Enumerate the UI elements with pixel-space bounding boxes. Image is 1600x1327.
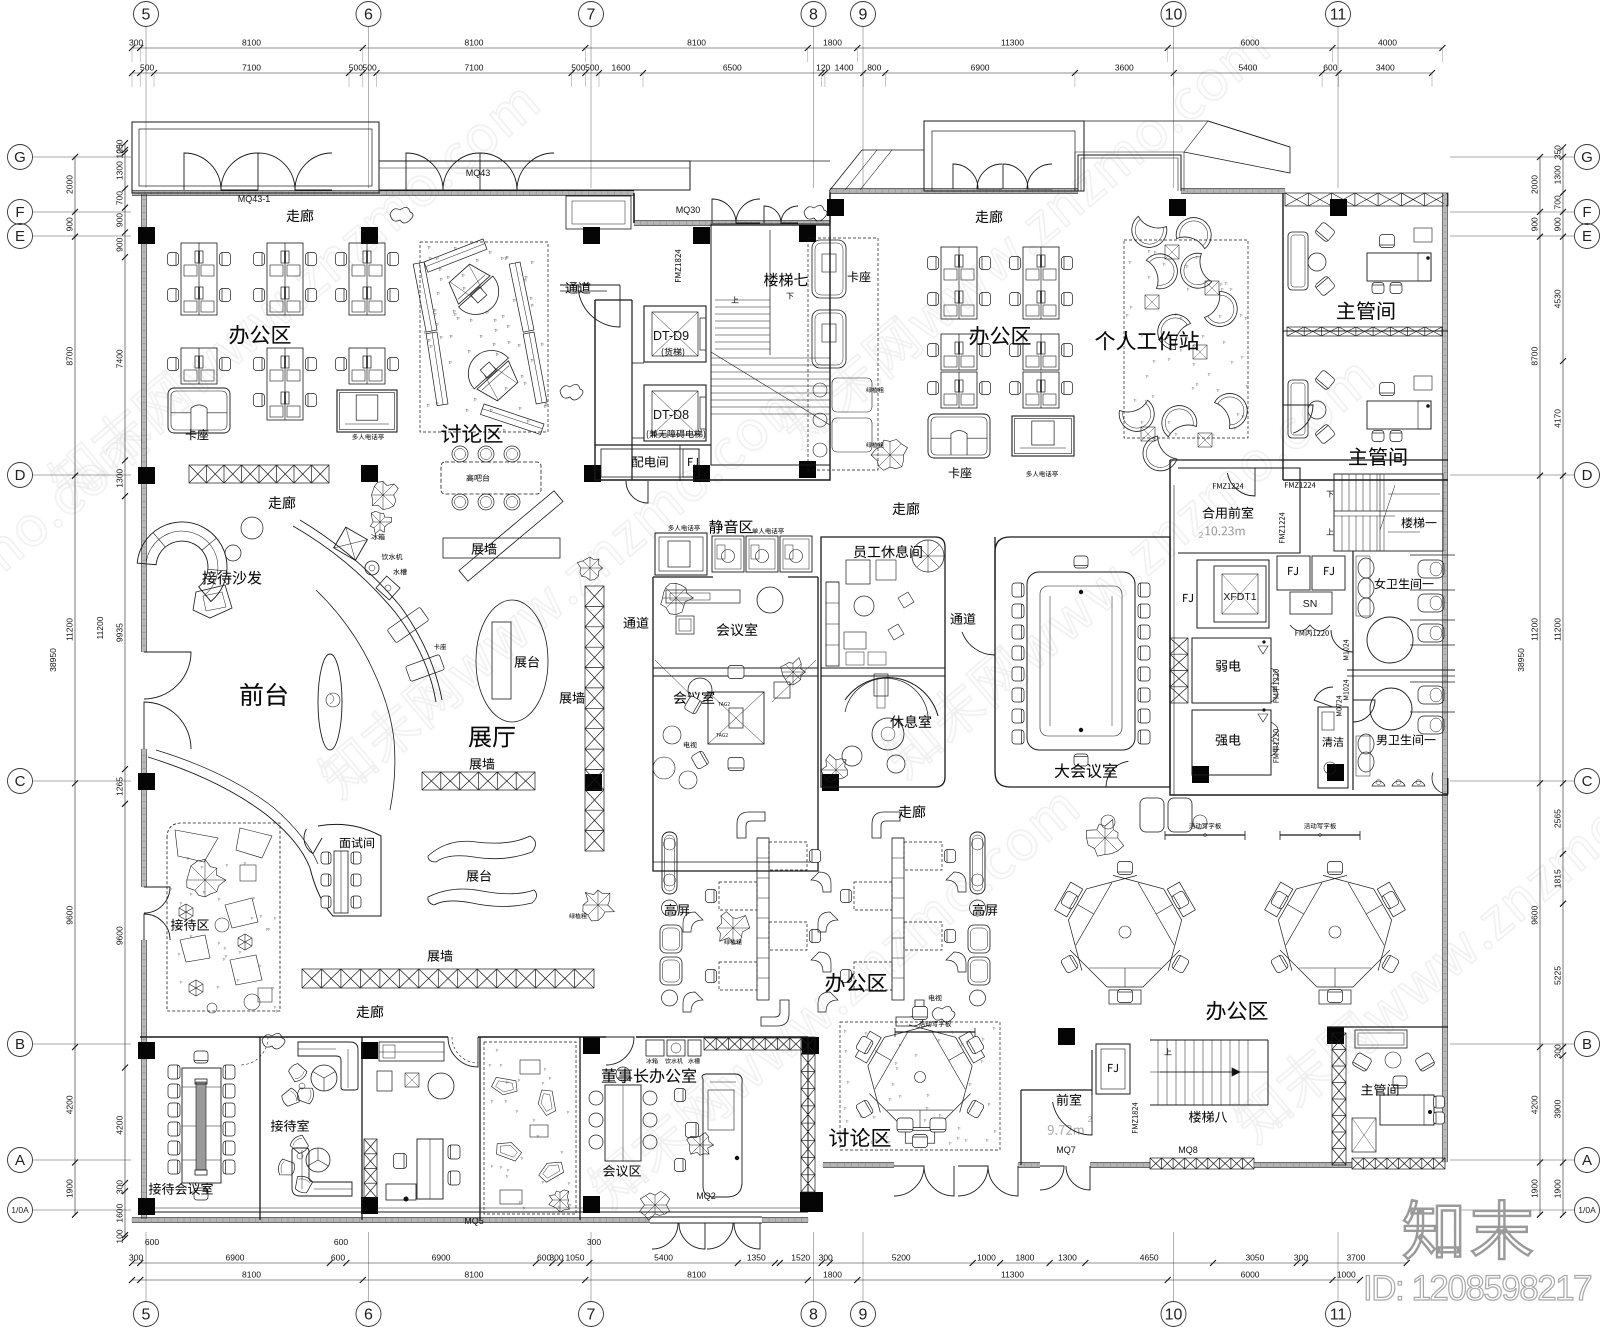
svg-text:300: 300 [819,1253,833,1263]
svg-text:9600: 9600 [1529,906,1539,925]
svg-text:1265: 1265 [115,777,125,796]
svg-text:1900: 1900 [65,1179,75,1198]
svg-text:7100: 7100 [242,63,261,73]
svg-text:6900: 6900 [226,1253,245,1263]
svg-text:5400: 5400 [1238,63,1257,73]
svg-text:10: 10 [1165,1307,1183,1324]
svg-text:SN: SN [1303,598,1318,610]
svg-text:1900: 1900 [1530,1179,1540,1198]
svg-text:F: F [15,204,24,221]
svg-text:8100: 8100 [465,38,484,48]
svg-text:350: 350 [1553,145,1563,159]
svg-text:1815: 1815 [1553,869,1563,888]
svg-text:6: 6 [364,1307,373,1324]
svg-text:11200: 11200 [95,616,105,639]
svg-text:9600: 9600 [114,926,124,945]
svg-text:1900: 1900 [1552,1179,1562,1198]
svg-text:600: 600 [334,1237,348,1247]
svg-text:5: 5 [142,1307,151,1324]
svg-text:MQ43-1: MQ43-1 [238,194,271,204]
svg-text:MQ8: MQ8 [1178,1145,1198,1155]
svg-text:9: 9 [859,7,868,24]
svg-text:4170: 4170 [1552,409,1562,428]
svg-text:6500: 6500 [723,63,742,73]
svg-text:8100: 8100 [465,1270,484,1280]
svg-text:3400: 3400 [1376,63,1395,73]
svg-text:DT-D8: DT-D8 [653,408,689,422]
svg-text:1800: 1800 [1015,1253,1034,1263]
svg-text:7400: 7400 [115,349,125,368]
svg-text:900: 900 [1552,217,1562,231]
svg-text:10: 10 [1165,7,1183,24]
svg-text:100: 100 [114,1229,124,1243]
svg-text:1000: 1000 [1337,1270,1356,1280]
svg-text:MQ30: MQ30 [676,205,701,215]
svg-text:1300: 1300 [114,161,124,180]
svg-text:1800: 1800 [823,1270,842,1280]
svg-text:3600: 3600 [1115,63,1134,73]
svg-text:5: 5 [142,7,151,24]
svg-text:3050: 3050 [1245,1253,1264,1263]
svg-text:11300: 11300 [1001,1270,1024,1280]
svg-text:7100: 7100 [465,63,484,73]
svg-text:11200: 11200 [64,618,74,641]
svg-text:MQ5: MQ5 [464,1216,484,1226]
svg-text:6900: 6900 [432,1253,451,1263]
svg-text:1/0A: 1/0A [1578,1205,1596,1215]
svg-text:B: B [15,1036,25,1053]
svg-text:8100: 8100 [687,38,706,48]
svg-text:700: 700 [1552,195,1562,209]
svg-text:DT-D9: DT-D9 [653,329,689,343]
svg-text:1300: 1300 [1058,1253,1077,1263]
svg-text:XFDT1: XFDT1 [1223,591,1256,603]
svg-text:B: B [1582,1036,1592,1053]
svg-text:700: 700 [115,191,125,205]
svg-text:ID: 1208598217: ID: 1208598217 [1363,1269,1591,1308]
svg-text:1520: 1520 [791,1253,810,1263]
svg-text:11200: 11200 [1552,618,1562,641]
svg-text:600: 600 [1323,63,1337,73]
svg-text:5400: 5400 [654,1253,673,1263]
svg-text:4530: 4530 [1553,289,1563,308]
svg-text:MQ7: MQ7 [1056,1145,1076,1155]
svg-text:11200: 11200 [1529,618,1539,641]
svg-text:E: E [15,228,25,245]
svg-text:3700: 3700 [1346,1253,1365,1263]
svg-text:8: 8 [809,1307,818,1324]
svg-text:6900: 6900 [971,63,990,73]
svg-text:38950: 38950 [48,648,58,672]
svg-text:2000: 2000 [65,175,75,194]
svg-text:38950: 38950 [1516,648,1526,672]
svg-text:11: 11 [1330,7,1347,24]
svg-text:9600: 9600 [64,906,74,925]
svg-text:8700: 8700 [1530,346,1540,365]
svg-text:2000: 2000 [1530,175,1540,194]
svg-text:3900: 3900 [1553,1099,1563,1118]
svg-text:MQ43: MQ43 [466,168,491,178]
svg-text:7: 7 [587,7,596,24]
svg-text:F: F [1582,204,1591,221]
svg-text:300: 300 [129,1253,143,1263]
svg-text:1300: 1300 [115,469,125,488]
svg-text:G: G [14,149,26,166]
svg-text:900: 900 [115,213,125,227]
svg-text:6: 6 [364,7,373,24]
svg-text:8100: 8100 [242,1270,261,1280]
svg-text:4200: 4200 [115,1116,125,1135]
svg-text:8: 8 [809,7,818,24]
svg-text:8100: 8100 [687,1270,706,1280]
svg-text:300: 300 [549,1253,563,1263]
svg-text:2565: 2565 [1552,809,1562,828]
svg-text:C: C [1582,773,1593,790]
svg-text:1000: 1000 [977,1253,996,1263]
svg-text:C: C [15,773,26,790]
svg-text:1400: 1400 [835,63,854,73]
svg-text:2: 2 [1199,531,1204,540]
svg-text:1350: 1350 [747,1253,766,1263]
svg-text:300: 300 [587,1237,601,1247]
svg-text:4200: 4200 [64,1095,74,1114]
svg-text:9935: 9935 [114,623,124,642]
svg-text:1800: 1800 [823,38,842,48]
svg-text:6000: 6000 [1241,1270,1260,1280]
svg-text:5225: 5225 [1553,966,1563,985]
svg-text:9: 9 [859,1307,868,1324]
svg-text:A: A [15,1152,25,1169]
svg-text:A: A [1582,1152,1592,1169]
svg-text:MQ2: MQ2 [696,1191,716,1201]
svg-text:4000: 4000 [1378,38,1397,48]
svg-text:800: 800 [867,63,881,73]
svg-text:900: 900 [115,237,125,251]
svg-text:8700: 8700 [65,346,75,365]
svg-text:G: G [1581,149,1593,166]
svg-text:600: 600 [145,1237,159,1247]
svg-text:900: 900 [64,217,74,231]
svg-text:4200: 4200 [1529,1095,1539,1114]
svg-text:5200: 5200 [892,1253,911,1263]
svg-text:900: 900 [1529,217,1539,231]
svg-text:1/0A: 1/0A [11,1205,29,1215]
svg-text:E: E [1582,228,1592,245]
svg-text:6000: 6000 [1241,38,1260,48]
svg-text:1300: 1300 [1553,165,1563,184]
svg-text:300: 300 [115,1180,125,1194]
svg-text:7: 7 [587,1307,596,1324]
svg-text:300: 300 [1553,1044,1563,1058]
svg-text:600: 600 [331,1253,345,1263]
svg-text:D: D [15,467,26,484]
svg-text:1600: 1600 [115,1203,125,1222]
svg-text:300: 300 [129,38,143,48]
svg-text:1600: 1600 [612,63,631,73]
svg-text:8100: 8100 [242,38,261,48]
svg-text:1050: 1050 [566,1253,585,1263]
svg-text:D: D [1582,467,1593,484]
svg-text:300: 300 [1294,1253,1308,1263]
svg-text:11: 11 [1330,1307,1347,1324]
svg-text:11300: 11300 [1001,38,1024,48]
svg-text:4650: 4650 [1140,1253,1159,1263]
